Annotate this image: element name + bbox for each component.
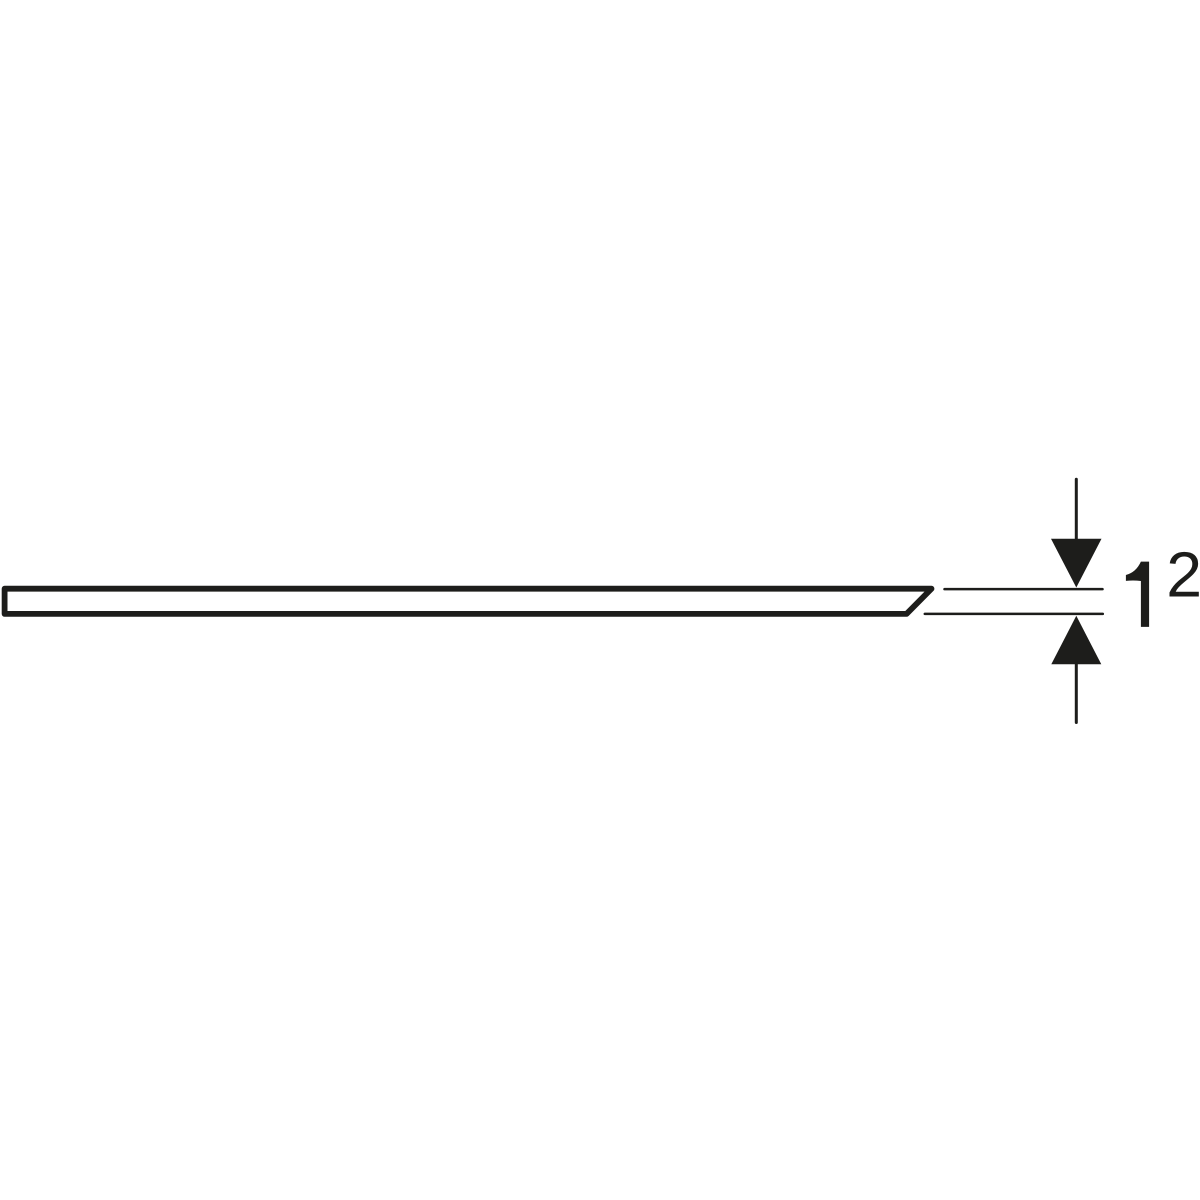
bottom extension line xyxy=(925,613,1103,616)
upper arrowhead (points down) xyxy=(1051,539,1102,588)
dimension leader lower vertical line xyxy=(1075,664,1078,723)
svg-text:2: 2 xyxy=(1166,539,1200,611)
top extension line xyxy=(945,588,1103,591)
lower arrowhead (points up) xyxy=(1051,616,1101,665)
plate (side view outline with beveled right end) xyxy=(5,589,932,614)
dimension leader upper vertical line xyxy=(1075,479,1078,540)
dimension label 1 (Helvetica-style, no foot serif) xyxy=(1126,562,1149,627)
